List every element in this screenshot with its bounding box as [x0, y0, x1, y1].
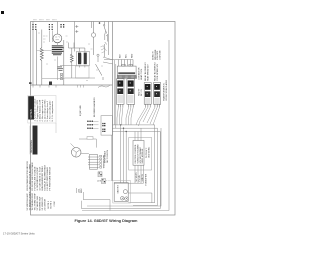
- svg-text:17-19 G8D/GT Series Units: 17-19 G8D/GT Series Units: [3, 231, 35, 235]
- warning box: [29, 126, 37, 155]
- ignition enclosure: [129, 138, 152, 171]
- thermostat switch diagonal: [92, 22, 104, 81]
- ignition labels right: [146, 146, 150, 158]
- bus wires horizontal mid: [112, 125, 160, 132]
- svg-text:RED: RED: [132, 53, 134, 58]
- wire x63.8: [63, 40, 65, 85]
- relay coil box: [117, 64, 136, 75]
- svg-text:8- C.G. compartments: 8- C.G. compartments: [51, 101, 54, 121]
- svg-text:CCW: CCW: [54, 201, 56, 206]
- wire corner left low: [82, 192, 111, 211]
- wire below motor: [56, 43, 58, 80]
- wire nut marks: [75, 25, 78, 33]
- wire x49.5 stubs: [50, 31, 53, 43]
- wire inner bottom-right box: [87, 128, 161, 206]
- ignition side labels: [104, 150, 110, 163]
- svg-text:EQUIP GND: EQUIP GND: [80, 105, 82, 116]
- limit switch S1: [103, 22, 106, 34]
- strip label text: [103, 154, 106, 168]
- relay labels right pair: [144, 62, 159, 81]
- svg-text:PV 24V: PV 24V: [139, 174, 141, 181]
- bottom bus horizontals: [82, 203, 161, 209]
- caption: [75, 219, 139, 223]
- wire to motor: [56, 22, 58, 35]
- resistor R1 zigzag: [40, 48, 43, 61]
- wire below resistor: [41, 61, 43, 85]
- legend text band 2: [27, 191, 56, 211]
- terminal teeth row: [117, 75, 137, 78]
- lower dashed box: [76, 66, 90, 78]
- door interlock circle: [91, 22, 95, 56]
- terminal strip TS1: [88, 154, 99, 169]
- connector stack lower-left: [61, 73, 63, 80]
- wire to fan area: [79, 139, 96, 148]
- ticks below panel: [33, 85, 56, 88]
- svg-text:GAS VLV: GAS VLV: [117, 184, 120, 193]
- ticks below contactors: [118, 104, 159, 107]
- strip terminal squares: [100, 155, 102, 168]
- wire L1 vertical: [32, 22, 34, 86]
- wire color dashes: [101, 46, 107, 54]
- svg-text:BLK: BLK: [120, 54, 122, 58]
- panel-bottom wavy wire: [98, 85, 110, 88]
- wire y193: [128, 193, 152, 203]
- wire transformer top: [75, 22, 85, 52]
- gas valve GV box: [114, 183, 128, 202]
- svg-text:NOTES:: NOTES:: [29, 109, 33, 119]
- blower motor M1: [53, 34, 62, 43]
- wires below ignition: [114, 165, 143, 183]
- texture dashes left panel: [38, 33, 103, 81]
- low-left tiny labels: [77, 188, 82, 193]
- notes text columns: [34, 98, 55, 121]
- contactor K3: [144, 83, 151, 105]
- left border tick: [29, 82, 32, 84]
- wire L2 vertical: [36, 30, 38, 86]
- svg-text:NOTE 3: NOTE 3: [50, 200, 52, 208]
- svg-text:GND 24VAC: GND 24VAC: [147, 146, 150, 158]
- wire bus y65.5: [60, 65, 77, 67]
- bus verticals right: [155, 125, 161, 209]
- border frame outer: [31, 22, 176, 216]
- connector J2: [49, 24, 53, 30]
- right margin label column: [162, 79, 167, 101]
- svg-text:Z1 IGNITOR: Z1 IGNITOR: [44, 198, 46, 210]
- connector J1: [32, 24, 36, 30]
- motor data text block: [52, 45, 64, 55]
- svg-text:COM LINE: COM LINE: [160, 50, 162, 60]
- wires above ignition: [135, 128, 141, 140]
- fan motor B2: [71, 143, 89, 157]
- svg-text:HEAT SPEED 24V: HEAT SPEED 24V: [147, 64, 150, 81]
- wire x111.8: [111, 135, 113, 181]
- wire fan-out from contactors: [117, 107, 160, 126]
- svg-text:RLY CL: RLY CL: [141, 88, 143, 96]
- svg-text:BLOWER HARNESS: BLOWER HARNESS: [93, 97, 96, 117]
- box on bottom border: [49, 82, 52, 86]
- harness label vertical: [93, 97, 96, 117]
- wire bus y50.5: [37, 50, 52, 52]
- lower connector cluster 1: [98, 172, 102, 177]
- notes box: [28, 96, 56, 134]
- junction box: [101, 116, 112, 135]
- svg-text:HEAT COOL: HEAT COOL: [140, 68, 143, 80]
- wire jog left-panel to relays: [103, 57, 133, 64]
- ignition wire labels: [136, 172, 144, 182]
- transformer T1: [77, 52, 90, 66]
- aux label vertical: [80, 105, 82, 116]
- wire pair down right of panel: [114, 60, 116, 128]
- svg-text:PS PRESSURE SWITCH: PS PRESSURE SWITCH: [49, 166, 51, 190]
- lower connector cluster 2: [102, 179, 106, 184]
- wire bus y78.5: [42, 78, 65, 80]
- connector J3: [60, 24, 64, 28]
- svg-text:24V COMMON: 24V COMMON: [107, 150, 109, 163]
- relay labels left pair: [120, 53, 134, 58]
- top border labels: [33, 19, 57, 21]
- lower cluster labels: [97, 181, 111, 183]
- svg-text:MV MV/PV: MV MV/PV: [136, 172, 138, 182]
- tick row 1: [87, 121, 99, 123]
- humidifier label: [145, 173, 147, 185]
- transformer bottom ticks: [80, 66, 85, 68]
- wire drops to gas valve: [120, 124, 127, 182]
- pressure switch marks: [105, 22, 109, 58]
- wires into coil box: [119, 60, 134, 67]
- svg-text:COOL SPEED 24V: COOL SPEED 24V: [157, 63, 159, 81]
- svg-text:S8600 MODULE: S8600 MODULE: [142, 148, 144, 164]
- svg-text:HUMIDIFIER: HUMIDIFIER: [145, 173, 147, 185]
- svg-text:Figure 14. G8D/GT Wiring Diagr: Figure 14. G8D/GT Wiring Diagram: [75, 219, 139, 223]
- junction dot: [99, 22, 101, 24]
- contactor K4: [154, 83, 161, 105]
- svg-text:L1 N: L1 N: [97, 181, 102, 183]
- resistor R2 zigzag: [69, 43, 75, 79]
- tick row 3: [87, 128, 99, 130]
- label box on wire: [87, 137, 93, 140]
- svg-text:BLU: BLU: [126, 54, 128, 58]
- legend text band 1: [27, 161, 52, 191]
- relay mid labels: [138, 67, 143, 96]
- label marks mid-panel: [58, 67, 64, 71]
- contactor K2: [127, 79, 135, 105]
- tick row 2: [87, 124, 99, 126]
- footer text: [3, 231, 35, 235]
- contact screw specks: [119, 82, 157, 94]
- wire vertical x43 top: [42, 30, 46, 48]
- left panel box: [31, 22, 113, 182]
- svg-text:GND TH: GND TH: [142, 174, 144, 182]
- ignition control A1: [133, 141, 144, 166]
- page speck: [1, 11, 4, 14]
- wire bus y78: [65, 77, 96, 79]
- contactor K1: [117, 79, 125, 105]
- svg-text:120/24V 40VA CLASS2: 120/24V 40VA CLASS2: [165, 79, 168, 101]
- panel-bottom marks: [78, 85, 84, 88]
- wire inner right border: [82, 40, 169, 211]
- gas valve enclosure: [113, 181, 131, 204]
- upper label cluster: [151, 49, 161, 60]
